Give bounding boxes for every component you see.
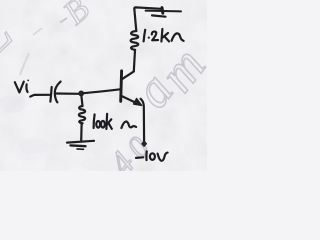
ground (top right) [146,10,181,13]
terminal dot -10V [142,141,147,147]
watermark faint stroke left [20,53,29,75]
watermark faint dash [33,28,42,35]
emitter diagonal [122,96,138,104]
wire resistor top to corner [134,7,161,31]
collector diagonal [122,71,134,79]
emitter arrowhead [134,99,142,106]
transistor Q1 base bar [119,71,123,102]
paper background [0,0,207,171]
wire capacitor to node [56,92,79,95]
watermark diagonal text .40am [103,38,217,182]
label -10V [136,156,143,159]
ink [15,7,184,160]
wire resistor to ground [80,124,83,141]
wire node to base [84,89,121,93]
node A junction dot [78,91,84,97]
wire collector up to resistor [134,50,135,71]
watermark letter B (top) [0,0,97,69]
wire emitter down to supply [141,99,145,141]
resistor R2 1.2k zigzag [131,31,139,50]
capacitor C1 plate [50,87,51,102]
ground (bottom) [67,141,94,143]
label 1.2k ohm [144,30,146,42]
wire node down [81,96,82,106]
wire input [30,95,49,97]
capacitor C1 curved plate [55,82,61,103]
label 100k ohm [94,114,95,128]
label Vi [15,82,24,93]
resistor R1 100k zigzag [79,106,85,124]
